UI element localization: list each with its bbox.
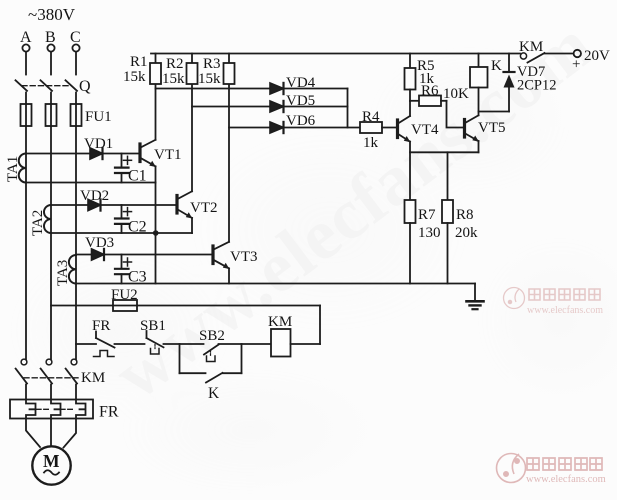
fuse FU1 pole A: [21, 104, 32, 126]
wire common emitter vertical: [155, 183, 157, 284]
relay coil K: [470, 54, 488, 88]
wire VT1 collector up to R1: [155, 84, 157, 140]
svg-text:www.elecfans.com: www.elecfans.com: [527, 305, 603, 316]
svg-text:10K: 10K: [443, 86, 469, 102]
contactor KM main contact pole C: [66, 359, 77, 383]
terminal C: [72, 44, 79, 51]
thermal relay FR heater A: [26, 385, 36, 419]
svg-text:B: B: [45, 29, 56, 46]
wire row2 top: [51, 204, 176, 206]
transistor VT2: [177, 191, 192, 218]
diode VD4: [270, 83, 284, 94]
wire K branch left vertical: [179, 344, 181, 373]
wire phase B upper: [50, 52, 52, 75]
wire VT1 emitter down: [155, 166, 157, 182]
motor M: [32, 446, 70, 484]
svg-text:TA1: TA1: [5, 156, 21, 182]
wire row1 top: [26, 153, 139, 155]
diode VD2: [88, 199, 101, 210]
svg-text:R7: R7: [418, 207, 436, 223]
svg-text:FU1: FU1: [85, 109, 112, 125]
diode VD7 labels: [517, 64, 557, 94]
wire VT4 emitter down through R7: [409, 142, 411, 200]
svg-text:K: K: [208, 385, 220, 402]
wire control row segment 4: [219, 343, 272, 345]
resistor R2: [187, 54, 198, 85]
svg-text:TA3: TA3: [55, 260, 71, 286]
svg-text:1k: 1k: [363, 135, 379, 151]
svg-text:VD5: VD5: [286, 93, 315, 109]
resistor R6: [410, 96, 447, 107]
svg-text:TA2: TA2: [30, 210, 46, 236]
wire row1 bottom: [26, 182, 156, 184]
diode VD5: [270, 101, 284, 112]
diode VD1: [90, 148, 103, 159]
contact K (self hold NO) blade: [206, 373, 223, 383]
svg-text:R1: R1: [130, 54, 148, 70]
transistor VT4: [398, 116, 411, 142]
svg-text:R3: R3: [203, 56, 221, 72]
wire control row segment 3: [164, 343, 204, 345]
svg-text:20V: 20V: [584, 48, 610, 64]
diode VD7: [504, 54, 515, 112]
wire K coil bottom to VT5 collector: [478, 88, 480, 116]
top supply bus: [151, 53, 520, 55]
wire FU2 bus: [51, 305, 320, 307]
wire VT5 emitter down: [478, 141, 480, 152]
wire phase A upper: [25, 52, 27, 75]
switch Q pole B blade: [41, 80, 53, 91]
terminal 20V: [574, 50, 581, 57]
wire K branch segment: [180, 372, 206, 374]
svg-text:R8: R8: [456, 207, 474, 223]
contact FR (NC thermal): [94, 332, 115, 357]
wire right side of control loop: [319, 306, 321, 345]
pushbutton SB2 (NO start) blade: [204, 345, 219, 362]
wire VD5 row: [192, 106, 348, 108]
svg-text:SB1: SB1: [140, 318, 166, 334]
svg-text:VT4: VT4: [411, 122, 439, 138]
motor tilde: [44, 470, 59, 475]
wire VT4 collector up: [409, 101, 411, 116]
resistor R8: [442, 200, 453, 223]
wire VT3 collector up to R3: [228, 84, 230, 242]
wire row3 top: [76, 254, 212, 256]
svg-text:~380V: ~380V: [28, 5, 76, 24]
svg-text:R6: R6: [421, 83, 439, 99]
resistor R3 labels: [198, 56, 221, 87]
contact KM blade: [528, 53, 545, 63]
resistor R1: [150, 54, 161, 85]
thermal relay FR box: [10, 400, 93, 419]
svg-text:FR: FR: [99, 404, 119, 421]
fuse FU2: [113, 300, 137, 311]
capacitor C2: [115, 205, 132, 233]
wire motor feed B: [50, 419, 52, 447]
resistor R3: [224, 54, 235, 85]
svg-text:KM: KM: [519, 39, 543, 55]
fuse FU1 pole B: [46, 104, 57, 126]
wire diode cathode vertical: [347, 89, 349, 128]
junction dot row2: [153, 230, 159, 236]
svg-text:M: M: [43, 451, 60, 471]
svg-text:VT1: VT1: [154, 147, 182, 163]
pushbutton SB1 (NC stop): [147, 331, 164, 354]
contactor KM main contact pole B: [41, 359, 52, 383]
terminal B: [47, 44, 54, 51]
wire emitter row VT4-VT5: [410, 151, 479, 153]
svg-text:Q: Q: [79, 78, 91, 95]
svg-text:VD6: VD6: [286, 113, 316, 129]
transistor VT1: [140, 140, 156, 167]
svg-text:A: A: [20, 29, 32, 46]
wire bottom common bus: [76, 283, 475, 285]
switch Q linkage dashed: [22, 85, 70, 87]
wire K branch right vertical: [241, 344, 243, 373]
contactor KM main contact pole A: [16, 359, 27, 383]
wire VD6 row: [229, 127, 360, 129]
wire VT2 collector up to R2: [191, 84, 193, 191]
thermal relay FR heater C: [76, 385, 86, 419]
svg-text:FU2: FU2: [111, 287, 138, 303]
resistor R5: [405, 54, 416, 102]
svg-text:+: +: [572, 57, 580, 73]
resistor R2 labels: [162, 56, 185, 87]
transistor VT3: [213, 242, 229, 269]
faint diagonal site watermark: [99, 4, 607, 414]
fuse FU2 wire inside: [113, 305, 137, 307]
diode VD6: [270, 122, 284, 133]
contact KM (relay supply) hook: [520, 53, 526, 59]
resistor R1 labels: [123, 54, 148, 85]
resistor R6 labels: [421, 83, 469, 102]
wire phase C upper: [75, 52, 77, 75]
svg-text:VT3: VT3: [230, 249, 258, 265]
fuse FU1 pole C: [71, 104, 82, 126]
current transformer TA1: [19, 154, 26, 183]
fuse FU1 pole C wire inside: [75, 104, 77, 126]
wire phase A mid: [25, 93, 27, 360]
transistor VT5: [465, 115, 479, 141]
thermal relay FR linkage dashed: [37, 408, 73, 410]
wire row2 bottom: [51, 232, 192, 234]
svg-text:FR: FR: [92, 318, 110, 334]
wire motor feed C: [64, 419, 77, 448]
resistor R5 labels: [417, 58, 435, 87]
wire VT2 emitter down: [191, 218, 193, 233]
resistor R8 labels: [455, 207, 478, 241]
svg-text:VD3: VD3: [85, 235, 114, 251]
svg-text:R2: R2: [166, 56, 184, 72]
wire VT3 emitter down: [228, 268, 230, 283]
resistor R7: [405, 200, 416, 223]
svg-text:K: K: [491, 58, 502, 74]
wire control row segment 1: [76, 343, 96, 345]
terminal A: [22, 44, 29, 51]
red watermark middle right: [504, 288, 604, 317]
wire KM coil to right vertical: [291, 343, 321, 345]
wire to 20V terminal: [545, 53, 574, 55]
capacitor C3: [115, 255, 132, 284]
switch Q pole C blade: [66, 80, 78, 91]
svg-text:VD4: VD4: [286, 75, 316, 91]
wire motor feed A: [26, 419, 40, 448]
svg-text:SB2: SB2: [199, 328, 225, 344]
svg-text:KM: KM: [81, 370, 105, 386]
contactor coil KM: [271, 329, 291, 357]
svg-text:130: 130: [418, 225, 441, 241]
svg-text:VD2: VD2: [80, 188, 109, 204]
svg-text:15k: 15k: [123, 69, 146, 85]
svg-text:15k: 15k: [162, 71, 185, 87]
current transformer TA2: [44, 205, 51, 233]
resistor R7 labels: [418, 207, 441, 241]
wire control row segment 2: [115, 343, 145, 345]
svg-text:C: C: [70, 29, 81, 46]
resistor R4 labels: [362, 109, 380, 151]
red watermark bottom right: [497, 454, 606, 486]
wire R8 bottom to bus: [447, 223, 449, 284]
svg-text:www.elecfans.com: www.elecfans.com: [526, 474, 606, 485]
wire phase B mid: [50, 93, 52, 360]
switch Q pole A blade: [16, 80, 28, 91]
contactor KM main linkage dashed: [24, 377, 78, 379]
fuse FU1 pole A wire inside: [25, 104, 27, 126]
resistor R4: [360, 122, 397, 133]
current transformer TA3: [69, 255, 76, 284]
wire R8 top: [447, 152, 449, 200]
wire K branch segment right: [223, 372, 242, 374]
diode VD3: [92, 249, 105, 260]
fuse FU1 pole B wire inside: [50, 104, 52, 126]
ground: [467, 284, 484, 310]
svg-text:VD1: VD1: [84, 136, 113, 152]
wire R6 to VT5 base: [447, 101, 465, 128]
svg-text:VT2: VT2: [190, 200, 218, 216]
svg-text:R4: R4: [362, 109, 380, 125]
svg-text:KM: KM: [268, 314, 292, 330]
thermal relay FR heater B: [51, 385, 61, 419]
wire VD4 row: [156, 88, 348, 90]
wire K bottom row to VD7: [479, 111, 510, 113]
svg-text:VT5: VT5: [478, 120, 506, 136]
svg-text:15k: 15k: [198, 71, 221, 87]
capacitor C1: [115, 154, 132, 183]
wire phase C mid: [75, 93, 77, 360]
svg-text:20k: 20k: [455, 225, 478, 241]
wire R7 bottom to bus: [409, 223, 411, 284]
svg-text:2CP12: 2CP12: [517, 78, 557, 94]
